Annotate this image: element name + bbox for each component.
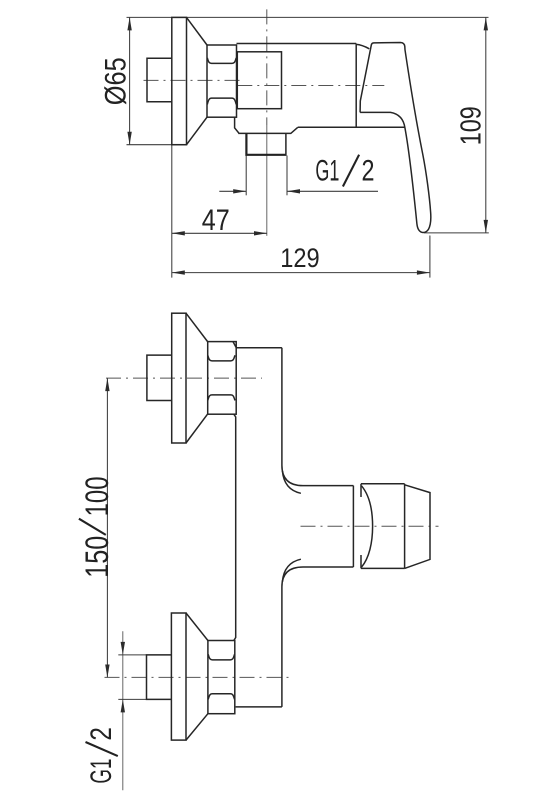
svg-text:Ø65: Ø65 — [99, 57, 132, 105]
svg-text:109: 109 — [455, 106, 487, 145]
svg-text:G1: G1 — [85, 759, 118, 784]
svg-text:2: 2 — [85, 727, 118, 741]
svg-text:2: 2 — [362, 155, 375, 188]
svg-text:100: 100 — [79, 476, 115, 516]
svg-text:150: 150 — [79, 536, 115, 578]
svg-text:G1: G1 — [315, 155, 339, 188]
svg-text:47: 47 — [202, 204, 230, 237]
svg-text:129: 129 — [280, 243, 320, 273]
